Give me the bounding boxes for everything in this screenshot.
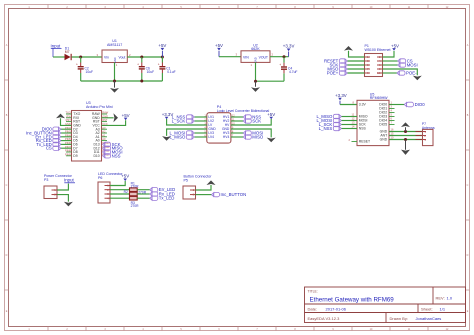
- connector P5 body: [183, 186, 196, 199]
- wire U2 ground rail: [256, 80, 285, 82]
- connector P6 body: [98, 182, 110, 203]
- junction node C6 bottom: [140, 80, 143, 83]
- node L_NSS (P4 LV1): [172, 115, 195, 120]
- svg-text:+5V: +5V: [391, 43, 399, 48]
- svg-text:10: 10: [377, 71, 381, 75]
- U5 pin names right inside: [379, 103, 387, 142]
- capacitor C4: [279, 57, 287, 81]
- svg-text:+3.3V: +3.3V: [283, 44, 295, 49]
- junction node U1 GND rail: [113, 80, 116, 83]
- svg-text:GND: GND: [380, 138, 388, 142]
- node MISO (P4 HV4): [243, 135, 264, 140]
- power flag +5V (P1): [391, 43, 399, 50]
- wire U2 Vout to +3.3V: [270, 56, 289, 58]
- wire U5 DIO4 stub: [389, 120, 395, 122]
- svg-text:2017-01-06: 2017-01-06: [326, 306, 347, 311]
- svg-text:1/1: 1/1: [440, 306, 446, 311]
- pin numbers P7: [424, 130, 426, 142]
- svg-text:C: C: [6, 184, 8, 187]
- wire U5 NSS: [341, 128, 357, 130]
- ground arrow down (P4 GND right): [267, 138, 276, 143]
- node SCK: [329, 63, 347, 68]
- node Inc_BUTTON (U3 D3): [26, 131, 61, 136]
- wire D1 to U1: [72, 56, 102, 58]
- wire U3 D5: [61, 140, 72, 142]
- wire U5 RESET stub: [352, 141, 358, 143]
- node L_MOSI (P4 LV3): [170, 131, 195, 136]
- pin stubs P6 (red): [105, 186, 111, 199]
- node Tx_LED (U3 D6): [36, 142, 61, 147]
- svg-text:10uF: 10uF: [86, 70, 94, 74]
- svg-text:+3.3V: +3.3V: [335, 93, 347, 98]
- svg-text:LV4: LV4: [208, 135, 214, 139]
- svg-text:L_NSS: L_NSS: [319, 126, 333, 131]
- wire U5 MOSI: [341, 120, 357, 122]
- wire R2 to Rx_LED: [137, 193, 150, 195]
- wire Input to D1: [53, 56, 65, 58]
- module U5 body: [357, 100, 389, 145]
- junction node GND2: [404, 138, 407, 141]
- wire P4 HV2: [231, 120, 243, 122]
- svg-text:Vout: Vout: [119, 55, 126, 59]
- ground (below U2): [251, 81, 260, 92]
- capacitor C6: [137, 57, 145, 81]
- svg-text:Tx_LED: Tx_LED: [159, 196, 175, 201]
- ground arrow down (P1 pin8): [413, 76, 422, 81]
- wire P4 HV3: [231, 132, 243, 134]
- net flag Input: [51, 43, 62, 57]
- svg-text:SCK: SCK: [252, 119, 261, 124]
- node RESET: [324, 59, 347, 64]
- svg-text:JonathanCaes: JonathanCaes: [416, 316, 442, 321]
- wire U3 RST stub: [66, 121, 72, 123]
- node Err_LED (P6): [150, 187, 175, 192]
- power flag +5V (P4 HV): [267, 112, 275, 119]
- wire U3 D2: [61, 128, 72, 130]
- node MISO: [327, 67, 347, 72]
- wire U3 RXI stub: [66, 117, 72, 119]
- wire U3 RST right stub: [102, 121, 108, 123]
- wire P1 pin10: [383, 72, 398, 74]
- connector P7 body: [423, 129, 434, 145]
- wire U3 D7: [61, 147, 72, 149]
- wire P4 GND left to ground: [167, 129, 207, 136]
- wire R3 to Tx_LED: [137, 197, 150, 199]
- svg-text:1.0: 1.0: [447, 296, 453, 301]
- wire P4 HV to +5V: [231, 119, 271, 125]
- wire P6 pin3 to R2: [110, 193, 130, 195]
- ground arrow down (P3): [64, 202, 73, 207]
- wire P4 LV to +3.3V: [167, 119, 207, 125]
- ground (below U1): [110, 81, 119, 93]
- svg-text:MOSI: MOSI: [407, 63, 418, 68]
- svg-text:GND: GND: [254, 57, 258, 63]
- wire U5 GND2 to P7: [389, 139, 423, 141]
- wire P4 HV1: [231, 116, 243, 118]
- svg-text:P3: P3: [44, 178, 48, 182]
- svg-text:REV:: REV:: [436, 296, 445, 301]
- svg-text:POE+: POE+: [327, 71, 339, 76]
- wire P4 LV3: [194, 132, 207, 134]
- wire P1 pin7: [347, 68, 365, 70]
- wire U1 Vout to +5V: [127, 56, 162, 58]
- connector P3 body: [44, 186, 57, 199]
- wire U5 3.3V pin: [340, 104, 357, 106]
- wire P1 pin9: [347, 72, 365, 74]
- ground arrow down (U5 GND tie): [401, 140, 410, 155]
- wire P4 LV1: [194, 116, 207, 118]
- node CS (U3 D7): [46, 146, 61, 151]
- svg-text:NSS: NSS: [359, 127, 367, 131]
- pin stubs P5 (red): [190, 190, 196, 195]
- wire P4 LV2: [194, 120, 207, 122]
- svg-text:P6: P6: [98, 176, 102, 180]
- wire P4 LV4: [194, 136, 207, 138]
- svg-text:662K: 662K: [251, 47, 260, 51]
- wire P6 pin1 to +5V: [110, 181, 125, 186]
- wire P1 pin5: [347, 64, 365, 66]
- svg-text:D: D: [6, 254, 8, 257]
- power flag +5V (U2 input): [215, 43, 223, 57]
- resistor R3: [130, 196, 138, 200]
- junction node GND1: [404, 130, 407, 133]
- wire P6 pin4 to R3: [110, 197, 130, 199]
- node Inc_BUTTON (P5): [212, 192, 247, 197]
- wire U5 DIO3 stub: [389, 116, 395, 118]
- power flag +3.3V (U2 output): [283, 44, 295, 57]
- wire U3 D4: [61, 136, 72, 138]
- node MOSI (U3 D11): [103, 150, 123, 155]
- svg-text:POE-: POE-: [406, 71, 417, 76]
- node L_NSS (U5): [319, 126, 342, 131]
- pin numbers U5 GND/ANT/GND: [391, 128, 394, 140]
- svg-text:L_SCK: L_SCK: [172, 119, 186, 124]
- wire U3 TXO stub: [66, 113, 72, 115]
- wire U5 DIO5 stub: [389, 124, 395, 126]
- U3 pin numbers right outside: [102, 111, 110, 157]
- capacitor C1: [158, 57, 166, 81]
- svg-text:DIO5: DIO5: [379, 123, 387, 127]
- wire P4 GND right to ground: [231, 129, 271, 137]
- wire U3 GND to ground arrow: [61, 118, 72, 125]
- wire U3 D9 stub: [66, 155, 72, 157]
- power flag +3.3V (P4 LV): [162, 112, 174, 119]
- svg-text:Inc_BUTTON: Inc_BUTTON: [221, 192, 247, 197]
- svg-text:P5: P5: [184, 179, 188, 183]
- svg-text:RESET: RESET: [359, 140, 370, 144]
- node SCK (P4 HV2): [243, 119, 261, 124]
- svg-text:RFM69HW: RFM69HW: [370, 96, 388, 100]
- wire U5 MISO: [341, 116, 357, 118]
- net flag Input (P3): [64, 178, 75, 183]
- svg-text:270R: 270R: [131, 204, 140, 208]
- svg-text:EasyEDA V3.12.3: EasyEDA V3.12.3: [308, 316, 341, 321]
- svg-text:4.7uF: 4.7uF: [289, 70, 297, 74]
- svg-text:M7: M7: [65, 50, 70, 54]
- wire P1 pin6: [383, 64, 398, 66]
- svg-text:D9: D9: [73, 154, 77, 158]
- wire P1 pin3: [347, 60, 365, 62]
- svg-text:+5V: +5V: [267, 112, 275, 117]
- svg-text:VOUT: VOUT: [259, 55, 268, 59]
- P4 pin numbers left: [204, 115, 206, 138]
- wire U5 DIO0: [389, 104, 404, 106]
- svg-text:+5V: +5V: [158, 43, 166, 48]
- wire ground rail: [81, 80, 163, 82]
- svg-text:Ethernet Gateway with RFM69: Ethernet Gateway with RFM69: [310, 297, 395, 304]
- pin stubs P1 (red): [365, 57, 383, 73]
- wire P3 pin2 to ground: [57, 195, 68, 202]
- node Rx_LED (U3 D5): [36, 138, 61, 143]
- svg-text:Sheet:: Sheet:: [421, 306, 433, 311]
- ic U3 body: [72, 111, 102, 162]
- wire U3 RAW stub: [102, 113, 108, 115]
- wire U3 A0 stub: [102, 140, 108, 142]
- svg-text:TITLE:: TITLE:: [308, 290, 318, 294]
- wire U3 A1 stub: [102, 136, 108, 138]
- wire U3 D8 stub: [66, 151, 72, 153]
- node L_MOSI (U5): [317, 118, 342, 123]
- junction node C6 top: [140, 56, 143, 59]
- svg-text:C: C: [467, 184, 469, 187]
- svg-text:D10: D10: [93, 154, 99, 158]
- node L_MISO (P4 LV4): [170, 135, 195, 140]
- pin numbers P1 left column: [367, 55, 369, 75]
- wire U5 ANT to P7: [389, 135, 423, 137]
- wire U3 GND right to ground arrow: [102, 117, 114, 119]
- wire U5 GND1 to P7: [389, 131, 423, 133]
- U3 pin names right inside: [92, 112, 101, 158]
- wire U3 VCC to +5V: [102, 120, 126, 125]
- wire P5 pin2: [196, 194, 212, 196]
- title block: [305, 287, 466, 323]
- svg-text:Drawn By:: Drawn By:: [390, 316, 408, 321]
- wire U3 A3 stub: [102, 128, 108, 130]
- node DIO0 (U3 D2): [42, 127, 61, 132]
- ground arrow up (U3 GND left): [56, 114, 65, 119]
- node L_SCK (U5): [319, 122, 342, 127]
- wire U3 D3: [61, 132, 72, 134]
- resistor R1: [130, 188, 138, 192]
- node Tx_LED (P6): [150, 196, 175, 201]
- power flag +5V (regulator output): [158, 43, 166, 57]
- pin numbers P1 right column: [377, 55, 381, 75]
- svg-text:NSS: NSS: [112, 153, 121, 158]
- pin stubs P7 (red): [416, 132, 427, 140]
- junction node U2 GND rail: [254, 80, 257, 83]
- node MISO (U3 D12): [103, 146, 124, 151]
- svg-text:DIO0: DIO0: [415, 102, 426, 107]
- pin numbers P6: [107, 184, 109, 201]
- wire P1 pin8 to ground: [383, 69, 418, 75]
- wire R1 to Err_LED: [137, 189, 150, 191]
- svg-text:+5V: +5V: [121, 174, 129, 179]
- svg-text:3.3V: 3.3V: [359, 103, 367, 107]
- wire P1 pin4: [383, 60, 398, 62]
- svg-text:AMS1117: AMS1117: [107, 43, 122, 47]
- node DIO0 (U5): [404, 102, 425, 107]
- ground arrow up (P5): [207, 180, 216, 185]
- P4 pin numbers right: [232, 115, 235, 138]
- wire P1 pin2 to +5V: [383, 51, 395, 57]
- svg-text:R2: R2: [124, 190, 128, 194]
- svg-text:L_MISO: L_MISO: [170, 135, 186, 140]
- U3 pin names left inside: [73, 112, 81, 158]
- svg-text:CS: CS: [46, 146, 52, 151]
- junction node C2 top: [79, 56, 82, 59]
- svg-text:D: D: [467, 254, 469, 257]
- svg-text:10uF: 10uF: [147, 70, 155, 74]
- wire +5V to U2 Vin: [219, 56, 241, 58]
- ground arrow right (U3 GND right): [113, 113, 118, 122]
- svg-text:MISO: MISO: [252, 135, 264, 140]
- svg-text:+3.3V: +3.3V: [162, 112, 174, 117]
- ground arrow down (P4 GND left): [162, 136, 171, 141]
- node NSS (P4 HV1): [243, 115, 261, 120]
- node MOSI: [398, 63, 418, 68]
- svg-text:W5100 Ethernet: W5100 Ethernet: [365, 48, 391, 52]
- wire U1 GND stem: [114, 63, 116, 82]
- regulator U2 body: [241, 51, 270, 63]
- wire U2 GND stem: [255, 62, 257, 81]
- diode D1: [65, 54, 72, 60]
- node L_MISO (U5): [317, 114, 342, 119]
- wire P3 pin1 to Input: [57, 184, 68, 191]
- ground arrow up (U5 GND tie): [401, 122, 410, 131]
- P4 pin names right inside: [222, 115, 230, 139]
- wire U5 SCK: [341, 124, 357, 126]
- svg-text:HV4: HV4: [223, 135, 230, 139]
- U5 pin names left inside: [359, 103, 370, 144]
- junction node C1 top: [161, 56, 164, 59]
- svg-text:VIN: VIN: [243, 55, 249, 59]
- svg-text:PIN13: PIN13: [102, 141, 110, 145]
- P4 pin names left inside: [208, 115, 216, 139]
- module P4 body: [207, 113, 231, 143]
- node POE+: [327, 71, 348, 76]
- svg-text:Input: Input: [64, 178, 75, 183]
- power flag +5V (P6): [121, 174, 129, 181]
- junction node C4 top: [283, 55, 286, 58]
- ground arrow up (P1 pin1): [344, 46, 353, 51]
- connector P1 body: [365, 54, 383, 77]
- svg-text:Date:: Date:: [308, 306, 318, 311]
- pin numbers P3: [54, 188, 56, 197]
- resistor R2: [130, 192, 138, 196]
- node Rx_LED (P6): [150, 192, 175, 197]
- wire P1 pin1 to ground arrow: [349, 51, 365, 57]
- capacitor C2: [76, 57, 84, 81]
- node NSS (U3 D10): [103, 153, 121, 158]
- svg-text:Input: Input: [51, 43, 62, 48]
- power flag +3.3V (U5): [335, 93, 347, 105]
- svg-text:+5V: +5V: [215, 43, 223, 48]
- svg-text:270R: 270R: [131, 185, 140, 189]
- node L_SCK (P4 LV2): [172, 119, 195, 124]
- node Err_LED (U3 D4): [35, 134, 60, 139]
- node POE-: [397, 71, 417, 76]
- svg-text:+5V: +5V: [122, 113, 130, 118]
- op U1 AMS1117 body: [102, 50, 127, 63]
- wire P5 pin1 to ground arrow: [196, 185, 212, 190]
- svg-text:Vin: Vin: [104, 55, 109, 59]
- wire P6 pin2 to R1: [110, 189, 130, 191]
- wire U5 DIO2 stub: [389, 112, 395, 114]
- node SCK (U3 D13): [103, 142, 121, 147]
- wire P4 HV4: [231, 136, 243, 138]
- wire U3 D6: [61, 143, 72, 145]
- node MOSI (P4 HV3): [243, 131, 263, 136]
- wire U3 A2 stub: [102, 132, 108, 134]
- U3 pin numbers left outside: [65, 111, 71, 157]
- wire U5 DIO1 stub: [389, 108, 395, 110]
- power flag +5V (U3 VCC): [122, 113, 130, 120]
- pin stubs P3 (red): [52, 190, 58, 195]
- pin numbers P5: [193, 188, 195, 197]
- svg-text:0.1uF: 0.1uF: [167, 70, 175, 74]
- svg-text:Arduino Pro Mini: Arduino Pro Mini: [86, 105, 113, 109]
- node CS: [398, 59, 413, 64]
